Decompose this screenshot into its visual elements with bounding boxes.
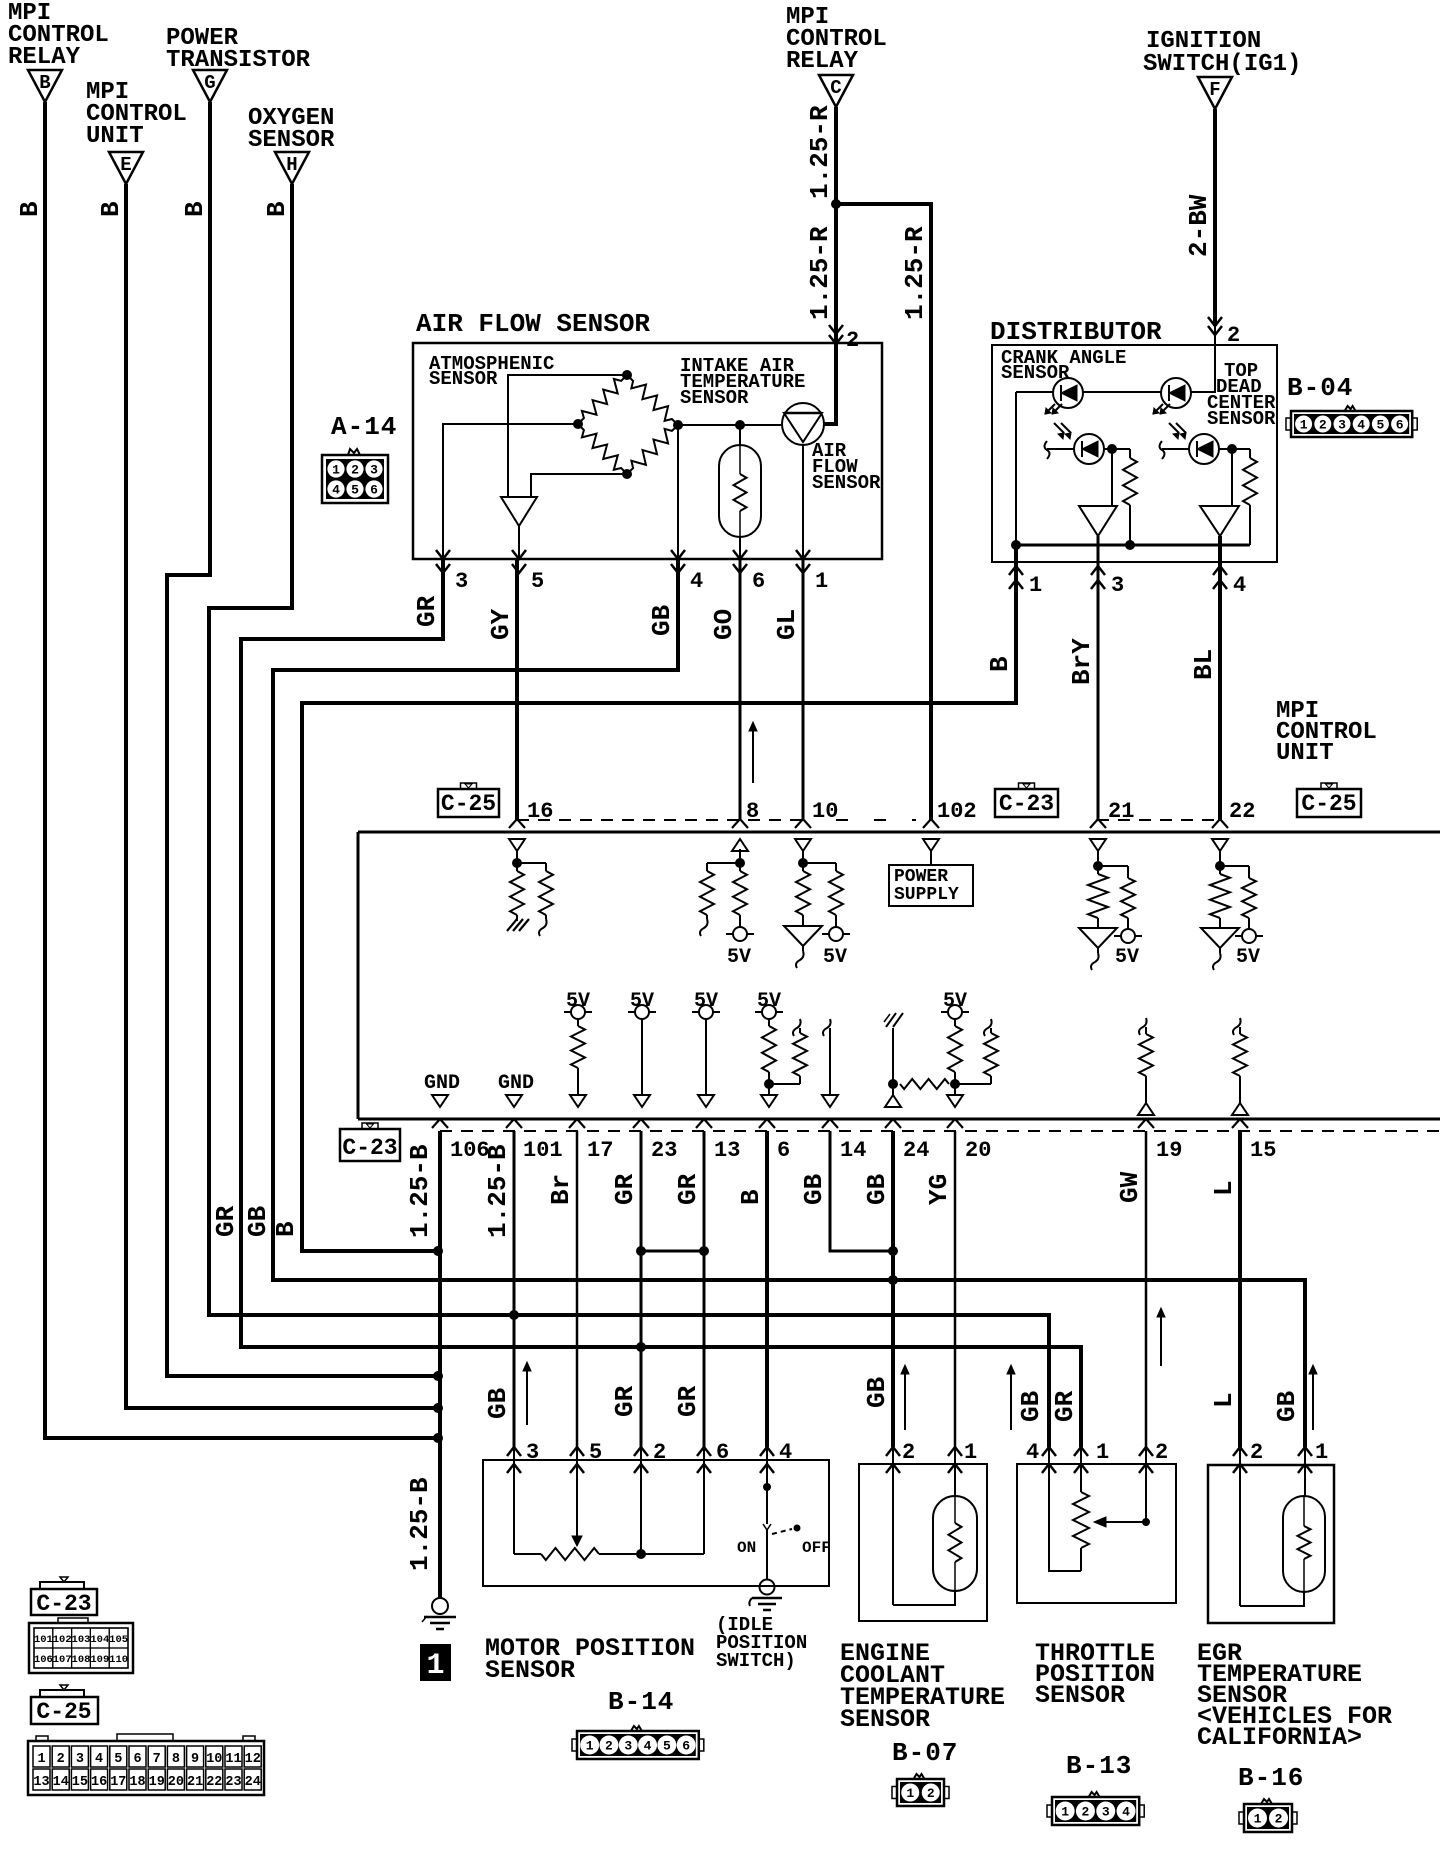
- svg-text:5V: 5V: [727, 946, 751, 969]
- connector B-04: [1291, 411, 1412, 437]
- pin 23 triangle: [634, 1095, 650, 1107]
- svg-text:105: 105: [109, 1634, 128, 1646]
- junction pin8: [735, 858, 745, 868]
- svg-text:SWITCH(IG1): SWITCH(IG1): [1143, 51, 1301, 78]
- wire pin22 to resistors: [1219, 849, 1221, 874]
- svg-text:16: 16: [527, 799, 553, 824]
- wire EGR pin2 inside: [1239, 1464, 1241, 1606]
- wire 2-BW from ignition switch to distributor pin 2: [1213, 109, 1217, 326]
- svg-text:GB: GB: [1272, 1390, 1302, 1422]
- svg-text:BrY: BrY: [1067, 638, 1097, 685]
- wire EGR bottom loop: [1240, 1592, 1304, 1606]
- connector B (MPI control relay): [28, 70, 62, 102]
- 5V supply below pin 22 b: [1248, 918, 1250, 929]
- buffer triangle below pin 22: [1219, 918, 1221, 928]
- svg-text:6: 6: [752, 569, 765, 594]
- wire L pin 15 to EGR sensor pin 2: [1238, 1131, 1242, 1447]
- pin 4 chevrons: [1213, 566, 1227, 575]
- signal arrow: [904, 1371, 906, 1430]
- junction pin14/pin24: [888, 1246, 898, 1256]
- svg-text:4: 4: [644, 1739, 652, 1754]
- svg-text:1: 1: [1300, 418, 1308, 433]
- svg-text:14: 14: [53, 1775, 69, 1790]
- pin 1 chevrons: [1009, 566, 1023, 575]
- wire LED line to ground bus: [1015, 392, 1017, 545]
- svg-text:F: F: [1209, 79, 1220, 101]
- amplifier triangle top dead center: [1200, 506, 1239, 536]
- EGR temperature sensor box: [1208, 1465, 1334, 1623]
- svg-text:4: 4: [1026, 1440, 1039, 1465]
- wire bridge top node to amplifier: [508, 375, 627, 497]
- wire 1.25-R from relay C: [834, 107, 838, 205]
- svg-text:1: 1: [426, 1649, 444, 1683]
- idle switch wire to ground: [766, 1545, 768, 1580]
- svg-text:C-23: C-23: [999, 791, 1054, 817]
- svg-text:3: 3: [76, 1752, 84, 1767]
- junction 1.25-R branch: [831, 199, 841, 209]
- svg-text:5V: 5V: [566, 990, 590, 1013]
- wire intake sensor to pin 6: [739, 537, 741, 559]
- svg-text:C-25: C-25: [441, 791, 496, 817]
- resistor above pin 19: [1145, 1027, 1147, 1034]
- svg-text:B-16: B-16: [1238, 1763, 1304, 1793]
- wire branch: [517, 862, 546, 864]
- wire AFS element to pin 1: [802, 445, 804, 559]
- svg-text:1.25-R: 1.25-R: [900, 226, 930, 320]
- signal arrow: [1312, 1371, 1314, 1430]
- svg-text:1: 1: [332, 463, 340, 478]
- wire PT1 output to amplifier: [1111, 449, 1113, 506]
- wire pin 14: [829, 1028, 831, 1095]
- svg-text:GB: GB: [862, 1376, 892, 1408]
- wire bridge right node to intake sensor and AFS: [678, 424, 782, 426]
- svg-text:GY: GY: [486, 608, 516, 640]
- wire LED anode line: [1016, 391, 1053, 393]
- svg-text:GR: GR: [610, 1385, 640, 1417]
- wire PT1 collector line: [1047, 448, 1074, 450]
- svg-text:B-14: B-14: [608, 1687, 674, 1717]
- bridge resistor bottom-right arm: [627, 425, 678, 474]
- junction oxygen-sensor line / pin 101 wire: [509, 1310, 519, 1320]
- distributor box: [992, 345, 1277, 562]
- svg-text:CALIFORNIA>: CALIFORNIA>: [1197, 1723, 1362, 1752]
- connector C-25 label box bottom: [31, 1697, 98, 1724]
- svg-text:SENSOR: SENSOR: [248, 127, 335, 154]
- ground (hatch) below pin16: [516, 915, 518, 921]
- resistor below pin 21: [1088, 874, 1108, 918]
- svg-text:6: 6: [682, 1739, 690, 1754]
- wire coolant pin1 inside: [954, 1464, 956, 1496]
- svg-text:17: 17: [587, 1138, 613, 1163]
- intake air temperature sensor (thermistor): [719, 445, 761, 537]
- svg-text:21: 21: [1108, 799, 1134, 824]
- junction trunk/B wire: [433, 1433, 443, 1443]
- svg-text:3: 3: [624, 1739, 632, 1754]
- engine coolant temperature sensor box: [859, 1464, 987, 1621]
- svg-text:16: 16: [91, 1775, 107, 1790]
- intake air temp sensor node: [735, 420, 745, 430]
- svg-text:B: B: [96, 201, 126, 217]
- svg-text:1: 1: [1315, 1440, 1328, 1465]
- svg-text:DISTRIBUTOR: DISTRIBUTOR: [990, 317, 1162, 347]
- wire EGR pin1 inside: [1304, 1464, 1306, 1496]
- svg-text:17: 17: [110, 1775, 126, 1790]
- bridge resistor top-left arm: [578, 375, 627, 424]
- coolant thermistor: [933, 1496, 977, 1591]
- svg-text:1: 1: [586, 1739, 594, 1754]
- svg-text:10: 10: [206, 1752, 222, 1767]
- motor sensor pin 4 chevrons: [760, 1447, 774, 1456]
- svg-text:5: 5: [531, 569, 544, 594]
- bridge node bottom: [622, 469, 632, 479]
- svg-text:GND: GND: [424, 1072, 460, 1095]
- svg-text:GR: GR: [673, 1385, 703, 1417]
- wire Br pin 17 to motor position sensor pin 5: [576, 1131, 579, 1447]
- connector C (MPI control relay): [819, 75, 853, 107]
- svg-text:5: 5: [351, 483, 359, 498]
- svg-text:YG: YG: [924, 1174, 954, 1205]
- throttle pot bottom rail: [1049, 1464, 1081, 1571]
- svg-text:GR: GR: [412, 595, 442, 627]
- svg-text:5V: 5V: [630, 990, 654, 1013]
- svg-text:L: L: [1209, 1392, 1239, 1408]
- pin 19 foot: [1138, 1119, 1154, 1128]
- junction ground bus R1: [1125, 540, 1135, 550]
- svg-text:C-23: C-23: [342, 1135, 397, 1161]
- wire bridge right node to pin 4: [677, 425, 679, 559]
- svg-text:GND: GND: [498, 1072, 534, 1095]
- LED top dead center sensor: [1161, 378, 1191, 408]
- wire pin3 inside box: [513, 1464, 515, 1554]
- svg-text:24: 24: [903, 1138, 929, 1163]
- connector C-25 label box right: [1297, 789, 1361, 817]
- junction pins 23-13 bridge: [636, 1246, 646, 1256]
- svg-text:2: 2: [902, 1440, 915, 1465]
- pin 17 foot: [569, 1119, 585, 1128]
- connector A-14: [322, 455, 388, 503]
- wire 1.25-R branch to MPI pin 102: [836, 204, 931, 820]
- wire pin8 to resistors: [739, 849, 741, 871]
- hook above pin 14: [823, 1019, 831, 1036]
- svg-text:19: 19: [149, 1775, 165, 1790]
- wire 1.25-B ground trunk pin 106: [438, 1131, 442, 1598]
- svg-text:3: 3: [1102, 1805, 1110, 1820]
- svg-text:3: 3: [455, 569, 468, 594]
- branch resistor pin 6: [799, 1028, 801, 1033]
- throttle wiper: [1145, 1464, 1147, 1522]
- svg-text:5V: 5V: [1236, 946, 1260, 969]
- svg-text:1.25-R: 1.25-R: [805, 226, 835, 320]
- svg-text:20: 20: [168, 1775, 184, 1790]
- resistor below pin 16 b: [539, 871, 553, 915]
- connector C-23 label box bottom: [31, 1589, 97, 1615]
- wire pin 23: [641, 1019, 643, 1095]
- svg-text:H: H: [286, 154, 297, 176]
- connector G (power transistor): [193, 70, 227, 102]
- branch resistor pin 20: [990, 1028, 992, 1033]
- svg-text:18: 18: [129, 1775, 145, 1790]
- phototransistor top dead center sensor: [1189, 434, 1219, 464]
- svg-text:13: 13: [33, 1775, 49, 1790]
- connector H (oxygen sensor): [275, 152, 309, 184]
- svg-text:SENSOR: SENSOR: [812, 472, 881, 494]
- junction pin10: [798, 858, 808, 868]
- svg-text:GR: GR: [1050, 1390, 1080, 1422]
- 5V supply below pin 8: [739, 915, 741, 927]
- svg-text:GB: GB: [647, 604, 677, 636]
- idle switch wire from pin 4: [766, 1464, 768, 1524]
- motor sensor pin 6 chevrons: [697, 1447, 711, 1456]
- svg-text:POWER: POWER: [894, 867, 948, 887]
- svg-text:6: 6: [777, 1138, 790, 1163]
- svg-text:GL: GL: [772, 609, 802, 640]
- pin 106 gnd triangle: [432, 1095, 448, 1107]
- pin 22 foot: [1212, 819, 1228, 828]
- pin 21 input triangle: [1090, 839, 1106, 851]
- svg-text:SENSOR: SENSOR: [429, 368, 498, 390]
- idle switch arm: [766, 1530, 768, 1545]
- pin 101 foot: [506, 1119, 522, 1128]
- distributor ground bus: [1016, 544, 1250, 547]
- junction trunk/E wire: [433, 1403, 443, 1413]
- motor sensor pin 5 chevrons: [570, 1447, 584, 1456]
- svg-text:SENSOR: SENSOR: [485, 1656, 575, 1685]
- svg-text:1.25-B: 1.25-B: [405, 1144, 435, 1238]
- svg-text:C: C: [830, 77, 841, 99]
- svg-text:2: 2: [605, 1739, 613, 1754]
- wire PT2 output to amplifier: [1231, 449, 1233, 506]
- svg-text:22: 22: [1229, 799, 1255, 824]
- svg-text:1.25-B: 1.25-B: [483, 1144, 513, 1238]
- pin 15 foot: [1232, 1119, 1248, 1128]
- svg-text:1: 1: [906, 1786, 914, 1801]
- throttle pin 2 chevrons: [1139, 1447, 1153, 1456]
- svg-text:3: 3: [370, 463, 378, 478]
- connector B-13: [1052, 1797, 1139, 1825]
- svg-text:Br: Br: [546, 1174, 576, 1205]
- wire bridge bottom node to amplifier: [531, 474, 627, 497]
- pin 23 foot: [633, 1119, 649, 1128]
- pin 13 foot: [696, 1119, 712, 1128]
- resistor below pin 8 a: [700, 871, 714, 915]
- pin 6 triangle: [761, 1095, 777, 1107]
- hook below pin 21: [1097, 948, 1099, 953]
- svg-text:10: 10: [812, 799, 838, 824]
- pin 106 foot: [432, 1119, 448, 1128]
- idle switch contact dot: [763, 1483, 771, 1491]
- 5V supply pin 20: [948, 1005, 962, 1019]
- wire B from MPI control relay to ground trunk: [45, 102, 436, 1438]
- svg-text:20: 20: [965, 1138, 991, 1163]
- svg-text:101: 101: [523, 1138, 563, 1163]
- svg-text:2: 2: [351, 463, 359, 478]
- wire branch: [1098, 865, 1128, 867]
- wire YG pin 20 to coolant sensor pin 1: [954, 1131, 957, 1447]
- wire coolant bottom loop: [893, 1591, 955, 1605]
- connector C-25 pin grid: [28, 1741, 264, 1795]
- power supply box: [889, 865, 973, 906]
- svg-text:1: 1: [37, 1752, 45, 1767]
- svg-text:24: 24: [245, 1775, 261, 1790]
- EGR pin 1 chevrons: [1298, 1447, 1312, 1456]
- junction pin22: [1215, 861, 1225, 871]
- hash mark above pin 24: [886, 1013, 896, 1027]
- wire distributor pin 1 (B) to ground trunk: [302, 545, 1016, 1251]
- wire GB from pin 4 to EGR sensor pin 1: [273, 559, 1305, 1447]
- connector dashed line bus1: [517, 819, 803, 821]
- svg-text:19: 19: [1156, 1138, 1182, 1163]
- svg-text:B: B: [985, 656, 1015, 672]
- pin 20 triangle: [947, 1095, 963, 1107]
- MPI control unit box top edge: [358, 831, 1440, 834]
- wire bridge left node to pin 3: [443, 424, 578, 559]
- wire B from MPI control unit to ground trunk: [126, 184, 436, 1408]
- svg-text:5V: 5V: [1115, 946, 1139, 969]
- pin 10 foot: [795, 819, 811, 828]
- wire amplifier output to pin 5: [518, 526, 520, 559]
- bridge node left: [573, 419, 583, 429]
- svg-text:5V: 5V: [823, 946, 847, 969]
- wire node to intake sensor: [739, 425, 741, 445]
- junction wiper: [1142, 1518, 1150, 1526]
- svg-text:101: 101: [34, 1634, 53, 1646]
- svg-text:B: B: [15, 201, 45, 217]
- signal arrow: [526, 1368, 528, 1425]
- svg-text:G: G: [204, 72, 215, 94]
- wire GB pin 24 to coolant sensor pin 2: [891, 1131, 895, 1447]
- resistor above pin 17: [577, 1019, 579, 1026]
- svg-text:GR: GR: [211, 1205, 241, 1237]
- EGR pin 2 chevrons: [1233, 1447, 1247, 1456]
- hook above pin 15: [1233, 1018, 1241, 1035]
- svg-text:1: 1: [1061, 1805, 1069, 1820]
- svg-text:2: 2: [1082, 1805, 1090, 1820]
- svg-text:1: 1: [1029, 573, 1042, 598]
- resistor below pin 8: [733, 871, 747, 915]
- wire BL distributor pin 4 to MPI pin 22: [1218, 536, 1222, 820]
- wire branch: [1220, 865, 1249, 867]
- resistor R2 (top dead center): [1249, 449, 1251, 458]
- pin 17 triangle: [570, 1095, 586, 1107]
- svg-text:7: 7: [153, 1752, 161, 1767]
- svg-text:4: 4: [779, 1440, 792, 1465]
- svg-text:C-25: C-25: [1301, 791, 1356, 817]
- junction GB line / pin 24 wire: [888, 1275, 898, 1285]
- pin 4 chevrons: [671, 550, 685, 559]
- throttle position sensor box: [1017, 1464, 1176, 1603]
- svg-text:2: 2: [846, 328, 859, 353]
- svg-text:SENSOR: SENSOR: [1035, 1681, 1125, 1710]
- pin 102 foot: [923, 819, 939, 828]
- junction GR line / pin 23 wire: [636, 1342, 646, 1352]
- svg-text:2: 2: [653, 1440, 666, 1465]
- svg-text:UNIT: UNIT: [86, 123, 144, 150]
- svg-text:9: 9: [191, 1752, 199, 1767]
- 5V supply pin 23: [635, 1005, 649, 1019]
- LED crank angle sensor: [1053, 378, 1083, 408]
- svg-text:1: 1: [1254, 1812, 1262, 1827]
- junction trunk/oxygen line: [433, 1246, 443, 1256]
- svg-text:1: 1: [815, 569, 828, 594]
- junction ground bus left: [1011, 540, 1021, 550]
- wire pin 102 to power supply: [930, 849, 932, 865]
- svg-text:5V: 5V: [943, 990, 967, 1013]
- svg-text:13: 13: [714, 1138, 740, 1163]
- svg-text:GB: GB: [799, 1173, 829, 1205]
- motor position sensor box: [483, 1460, 829, 1586]
- hook below pin 10: [802, 946, 804, 951]
- wire PT2 collector line: [1162, 448, 1189, 450]
- svg-text:107: 107: [53, 1654, 72, 1666]
- svg-text:15: 15: [1250, 1138, 1276, 1163]
- pin 10 input triangle: [795, 839, 811, 851]
- svg-text:GW: GW: [1115, 1171, 1145, 1203]
- signal arrow: [1160, 1314, 1162, 1366]
- 5V supply pin 17: [571, 1005, 585, 1019]
- junction pin 24: [888, 1079, 898, 1089]
- junction pin 20: [950, 1079, 960, 1089]
- svg-text:102: 102: [53, 1634, 72, 1646]
- coolant pin 1 chevrons: [948, 1447, 962, 1456]
- junction pin21: [1093, 861, 1103, 871]
- connector C-25 label box: [438, 789, 499, 817]
- pin 5 chevrons: [512, 550, 526, 559]
- junction pins 23-13 bridge b: [699, 1246, 709, 1256]
- wire GL from pin 1 to MPI pin 10: [802, 559, 805, 820]
- svg-text:B-07: B-07: [892, 1738, 958, 1768]
- pin 3 chevrons: [1091, 566, 1105, 575]
- wire branch: [707, 862, 740, 864]
- bridge wire pins 23-13: [641, 1250, 704, 1253]
- svg-text:6: 6: [370, 483, 378, 498]
- wire GB pin 14 to pin 24 wire: [830, 1131, 893, 1251]
- connector E (MPI control unit): [109, 152, 143, 184]
- potentiometer rail right: [599, 1553, 704, 1555]
- ground at idle switch: [760, 1580, 775, 1595]
- svg-text:2: 2: [1275, 1812, 1283, 1827]
- resistor above pin 6: [768, 1019, 770, 1026]
- connector F (ignition switch IG1): [1198, 77, 1232, 109]
- svg-text:5: 5: [114, 1752, 122, 1767]
- junction pin16: [512, 858, 522, 868]
- wire 1.25-R to air flow sensor pin 2: [824, 204, 836, 424]
- connector C-23 pin grid: [29, 1623, 133, 1673]
- svg-text:14: 14: [840, 1138, 866, 1163]
- throttle pin 4 chevrons: [1042, 1447, 1056, 1456]
- svg-text:5: 5: [663, 1739, 671, 1754]
- svg-text:B-13: B-13: [1066, 1751, 1132, 1781]
- pin 16 foot: [509, 819, 525, 828]
- svg-text:2: 2: [57, 1752, 65, 1767]
- wire BrY distributor pin 3 to MPI pin 21: [1097, 536, 1100, 820]
- wire GY from pin 5 to MPI pin 16: [515, 559, 519, 820]
- pin 20 foot: [947, 1119, 963, 1128]
- pin 8 output triangle: [732, 839, 748, 851]
- svg-text:SWITCH): SWITCH): [716, 1650, 796, 1672]
- hook below pin 22: [1219, 948, 1221, 953]
- pin 101 gnd triangle: [506, 1095, 522, 1107]
- resistor above pin 20: [954, 1019, 956, 1026]
- svg-text:6: 6: [716, 1440, 729, 1465]
- pin 22 input triangle: [1212, 839, 1228, 851]
- svg-text:15: 15: [72, 1775, 88, 1790]
- svg-text:23: 23: [225, 1775, 241, 1790]
- pin 13 triangle: [698, 1095, 714, 1107]
- wire pin 24: [892, 1028, 894, 1095]
- svg-text:C-23: C-23: [36, 1591, 91, 1617]
- wire pin16 to resistors: [516, 849, 518, 871]
- potentiometer rail left: [514, 1553, 541, 1555]
